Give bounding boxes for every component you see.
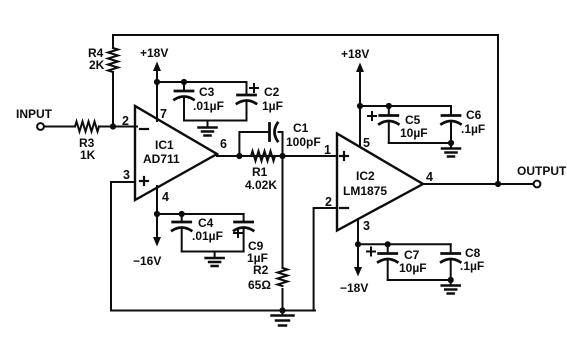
node V+ left bbox=[154, 79, 160, 85]
ground below C3 C2 bbox=[207, 121, 209, 128]
svg-text:+18V: +18V bbox=[140, 46, 168, 60]
wire C7 C8 loop top bbox=[358, 243, 451, 245]
capacitor C4 .01uF bbox=[181, 214, 183, 222]
wire IC1 pin6 output to IC2 pin 1 bbox=[217, 155, 337, 157]
wire C3 C2 loop top bbox=[157, 81, 247, 83]
svg-text:1: 1 bbox=[324, 143, 331, 157]
wire input to R3 bbox=[44, 126, 75, 128]
C2 plus sign bbox=[250, 87, 258, 89]
node C3 top bbox=[181, 79, 187, 85]
capacitor C9 1uF bbox=[243, 214, 245, 222]
wire top feedback from R4 top to right side bbox=[113, 35, 498, 184]
IC1 minus input sign bbox=[140, 128, 148, 130]
power +18V right arrow bbox=[359, 71, 361, 106]
node C5 top bbox=[386, 103, 392, 109]
IC2 plus input sign bbox=[340, 155, 348, 157]
node R1 left bbox=[236, 153, 242, 159]
capacitor C8 .1uF bbox=[450, 244, 452, 253]
wire R2 top bbox=[282, 156, 284, 268]
svg-text:R1: R1 bbox=[252, 165, 268, 179]
capacitor C6 .1uF bbox=[450, 106, 452, 115]
wire R3 to IC1 pin 2 bbox=[99, 126, 137, 128]
wire R2 bottom bbox=[282, 289, 284, 311]
svg-text:C6: C6 bbox=[466, 108, 482, 122]
node V+ right bbox=[357, 103, 363, 109]
wire C7 C8 loop bottom bbox=[388, 279, 451, 281]
power -18V arrow bbox=[357, 244, 359, 268]
wire IC2 pin 3 stem bbox=[357, 219, 359, 244]
svg-text:+18V: +18V bbox=[341, 47, 369, 61]
resistor R3 bbox=[75, 122, 99, 132]
op-amp IC2 LM1875 bbox=[337, 134, 423, 231]
svg-text:4: 4 bbox=[162, 190, 169, 204]
svg-text:10µF: 10µF bbox=[400, 126, 428, 140]
capacitor C5 10uF bbox=[388, 106, 390, 115]
C7 plus sign bbox=[367, 251, 375, 253]
C5 plus sign bbox=[368, 115, 376, 117]
ground below C8 bbox=[450, 280, 452, 286]
wire IC1 pin 7 stem bbox=[156, 82, 158, 121]
wire bottom feedback bbox=[111, 310, 315, 312]
wire R4 bottom to input node bbox=[112, 72, 114, 127]
svg-text:7: 7 bbox=[160, 107, 167, 121]
svg-text:IC2: IC2 bbox=[356, 169, 375, 183]
capacitor C1 100pF bbox=[268, 124, 271, 141]
node V- left bbox=[154, 211, 160, 217]
svg-text:.01µF: .01µF bbox=[192, 229, 223, 243]
svg-text:IC1: IC1 bbox=[155, 138, 174, 152]
node input junction bbox=[110, 123, 116, 129]
svg-text:−16V: −16V bbox=[133, 254, 161, 268]
node C4 top bbox=[179, 211, 185, 217]
svg-text:1K: 1K bbox=[80, 148, 96, 162]
node V- right bbox=[355, 241, 361, 247]
wire C4 C9 loop top bbox=[157, 213, 244, 215]
ground bottom bbox=[282, 311, 284, 316]
svg-text:R2: R2 bbox=[253, 263, 269, 277]
wire IC2 pin 5 stem bbox=[359, 106, 361, 147]
node R1 right bbox=[279, 153, 285, 159]
svg-text:10µF: 10µF bbox=[399, 261, 427, 275]
node C7 top bbox=[385, 241, 391, 247]
IC1 plus input sign bbox=[140, 180, 148, 182]
power +18V left arrow bbox=[156, 70, 158, 82]
wire R4 top to top wire bbox=[112, 35, 114, 48]
ground below C4 C9 bbox=[214, 252, 216, 259]
wire C5 C6 loop bottom bbox=[389, 142, 451, 144]
capacitor C7 10uF bbox=[387, 244, 389, 253]
svg-text:.1µF: .1µF bbox=[460, 259, 484, 273]
power -16V arrow bbox=[156, 214, 158, 238]
node C6 bottom bbox=[448, 140, 454, 146]
svg-text:5: 5 bbox=[363, 136, 370, 150]
svg-text:6: 6 bbox=[220, 137, 227, 151]
svg-text:C7: C7 bbox=[404, 248, 420, 262]
wire output bbox=[423, 183, 534, 185]
wire C5 C6 loop top bbox=[360, 105, 451, 107]
svg-text:C4: C4 bbox=[198, 216, 214, 230]
node C8 bottom bbox=[448, 277, 454, 283]
svg-text:2: 2 bbox=[325, 195, 332, 209]
terminal INPUT circle bbox=[37, 123, 44, 130]
svg-text:65Ω: 65Ω bbox=[248, 278, 271, 292]
wire IC1 pin 4 stem bbox=[156, 186, 158, 214]
svg-text:C8: C8 bbox=[465, 246, 481, 260]
svg-text:4: 4 bbox=[426, 170, 433, 184]
svg-text:OUTPUT: OUTPUT bbox=[517, 164, 567, 178]
resistor R1 4.02K bbox=[251, 151, 275, 161]
svg-text:3: 3 bbox=[363, 219, 370, 233]
node R2 ground bbox=[279, 307, 285, 313]
svg-text:2: 2 bbox=[122, 114, 129, 128]
svg-text:C3: C3 bbox=[199, 85, 215, 99]
svg-text:AD711: AD711 bbox=[143, 152, 180, 166]
capacitor C3 .01uF bbox=[183, 82, 185, 91]
svg-text:1µF: 1µF bbox=[262, 99, 283, 113]
wire C4 C9 loop bottom bbox=[182, 251, 244, 253]
svg-text:C2: C2 bbox=[264, 85, 280, 99]
svg-text:3: 3 bbox=[123, 168, 130, 182]
svg-text:C5: C5 bbox=[405, 113, 421, 127]
svg-text:C1: C1 bbox=[293, 121, 309, 135]
svg-text:4.02K: 4.02K bbox=[245, 178, 277, 192]
op-amp IC1 AD711 bbox=[135, 106, 217, 200]
resistor R4 bbox=[108, 48, 118, 72]
C9 plus sign bbox=[234, 232, 242, 234]
svg-text:−18V: −18V bbox=[340, 281, 368, 295]
svg-text:100pF: 100pF bbox=[286, 135, 321, 149]
ground below C6 bbox=[450, 143, 452, 149]
wire C3 C2 loop bottom bbox=[184, 120, 247, 122]
wire C1 loop bbox=[239, 132, 268, 156]
svg-text:LM1875: LM1875 bbox=[343, 184, 387, 198]
capacitor C2 1uF bbox=[246, 82, 248, 95]
svg-text:INPUT: INPUT bbox=[16, 107, 53, 121]
svg-text:2K: 2K bbox=[89, 58, 105, 72]
resistor R2 65 ohm bbox=[278, 268, 288, 286]
svg-text:.1µF: .1µF bbox=[461, 122, 485, 136]
wire IC1 pin 3 feedback left bbox=[111, 182, 135, 311]
terminal OUTPUT circle bbox=[534, 181, 541, 188]
IC2 minus input sign bbox=[340, 207, 348, 209]
node output junction bbox=[495, 181, 501, 187]
wire IC2 pin 2 bbox=[314, 208, 337, 311]
svg-text:.01µF: .01µF bbox=[193, 99, 224, 113]
